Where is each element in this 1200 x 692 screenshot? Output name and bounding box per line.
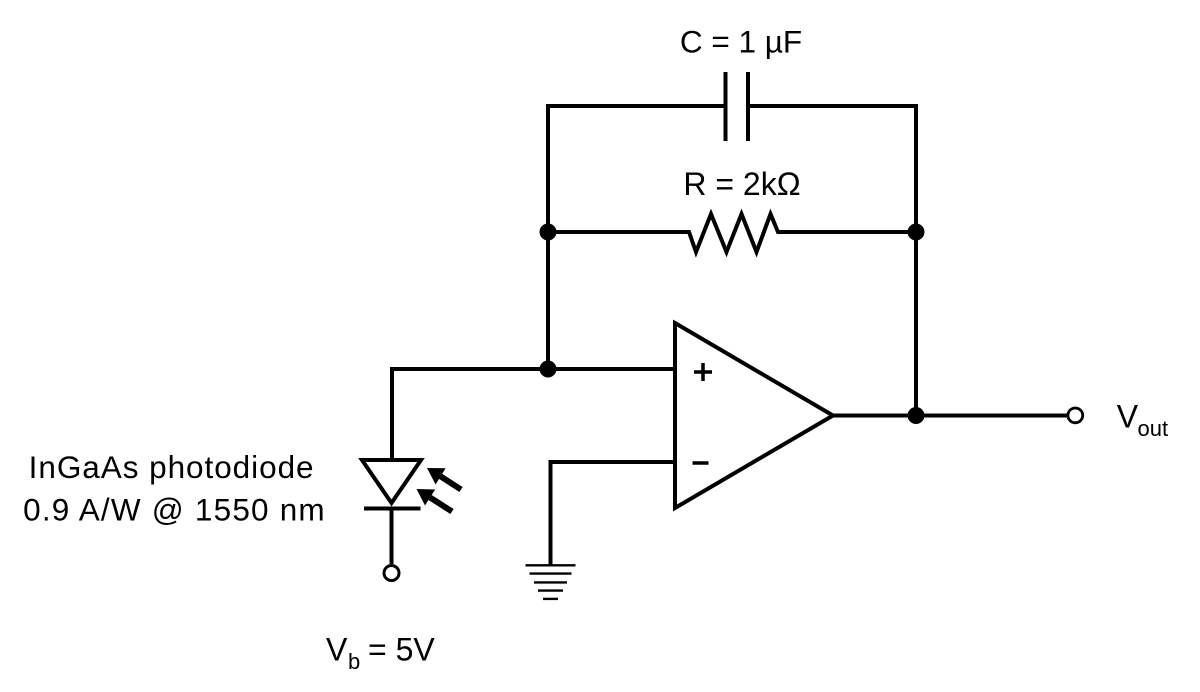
op-amp U1 (675, 323, 833, 508)
resistor R (R = 2k ohm) (548, 214, 916, 252)
label: Vb = 5V (326, 632, 435, 675)
svg-text:b: b (348, 649, 360, 674)
light arrow 1 (427, 468, 461, 490)
wire: output (833, 414, 1067, 418)
wire: ground drop (549, 460, 553, 565)
node: junction at op-amp + input (dot) (540, 361, 557, 378)
wire: non-inverting input (392, 367, 675, 371)
svg-text:= 5V: = 5V (368, 632, 435, 668)
photodiode D1 cathode wire (390, 509, 394, 565)
terminal: bias open circle (384, 566, 399, 581)
label: Vout (1117, 398, 1168, 441)
wire: top feedback rail left segment (548, 104, 725, 108)
terminal: Vout open circle (1068, 408, 1083, 423)
svg-text:C = 1 µF: C = 1 µF (680, 24, 802, 60)
svg-text:R = 2kΩ: R = 2kΩ (683, 166, 800, 202)
wire: inverting input (551, 460, 676, 464)
node: junction output-rail top (dot) (908, 224, 925, 241)
svg-text:V: V (1117, 398, 1139, 434)
op-amp + pin mark (694, 363, 712, 381)
svg-text:InGaAs photodiode: InGaAs photodiode (29, 449, 315, 485)
svg-text:out: out (1138, 416, 1169, 441)
ground (526, 565, 576, 599)
wire: right feedback vertical (914, 104, 918, 416)
svg-text:0.9 A/W @ 1550 nm: 0.9 A/W @ 1550 nm (23, 492, 326, 528)
photodiode D1 triangle (362, 460, 421, 503)
capacitor C (C = 1 uF) (726, 72, 749, 141)
wire: top feedback rail right segment (748, 104, 916, 108)
photodiode D1 anode wire (390, 367, 394, 460)
svg-text:V: V (326, 632, 348, 668)
node: output junction (dot) (908, 407, 925, 424)
light arrow 2 (417, 489, 453, 512)
wire: left feedback vertical (546, 104, 550, 369)
op-amp - pin mark (693, 461, 709, 465)
photodiode D1 cathode bar (364, 507, 421, 511)
node: junction inverting-rail left (dot) (540, 224, 557, 241)
